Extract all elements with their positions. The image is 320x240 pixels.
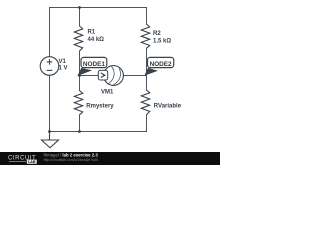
svg-text:http://circuitlab.com/c/19whj2: http://circuitlab.com/c/19whj2e7s45	[44, 158, 99, 162]
svg-text:1.5 kΩ: 1.5 kΩ	[153, 39, 171, 45]
svg-text:firmagel / lab 2 exercise 2.3: firmagel / lab 2 exercise 2.3	[44, 152, 99, 157]
svg-text:V1: V1	[59, 59, 67, 65]
voltage source V1	[40, 57, 59, 76]
svg-text:1 V: 1 V	[59, 65, 68, 71]
svg-text:LAB: LAB	[28, 160, 36, 164]
svg-text:VM1: VM1	[101, 90, 114, 96]
wire right branch bottom	[146, 115, 148, 132]
wire middle branch top	[79, 8, 81, 27]
ground	[42, 132, 59, 148]
node junction dot bottom-left	[48, 130, 51, 133]
footer bar	[0, 152, 220, 165]
wire voltmeter right lead	[123, 75, 146, 77]
wire middle branch mid	[79, 51, 81, 91]
node junction dot bottom-middle	[78, 130, 81, 133]
CircuitLab logo LAB box	[27, 160, 37, 164]
voltmeter polarity badge	[98, 70, 107, 80]
node junction dot top	[78, 6, 81, 9]
resistor R2	[141, 24, 149, 48]
wire middle branch bottom	[79, 115, 81, 132]
svg-text:RVariable: RVariable	[154, 104, 182, 110]
node flag NODE2 pointer	[144, 68, 158, 76]
CircuitLab logo underline	[9, 161, 26, 163]
node junction dot NODE1	[78, 74, 81, 77]
node flag NODE2	[148, 57, 174, 67]
wire right branch top	[146, 8, 148, 25]
resistor RVariable	[141, 90, 149, 115]
wire bottom rail	[50, 131, 147, 133]
svg-text:R1: R1	[88, 30, 96, 36]
svg-text:Rmystery: Rmystery	[86, 104, 114, 110]
wire top rail	[50, 7, 147, 9]
svg-text:NODE1: NODE1	[83, 61, 105, 68]
svg-text:R2: R2	[153, 31, 161, 37]
node flag NODE1	[81, 57, 107, 67]
svg-text:NODE2: NODE2	[150, 61, 172, 68]
node flag NODE1 pointer	[77, 68, 92, 76]
resistor Rmystery	[74, 91, 82, 115]
wire right branch mid	[146, 49, 148, 91]
wire left rail upper	[49, 8, 51, 57]
wire voltmeter left lead	[80, 75, 104, 77]
resistor R1	[74, 26, 82, 51]
wire left rail lower	[49, 75, 51, 131]
voltmeter VM1	[104, 66, 124, 86]
svg-text:44 kΩ: 44 kΩ	[88, 37, 105, 43]
